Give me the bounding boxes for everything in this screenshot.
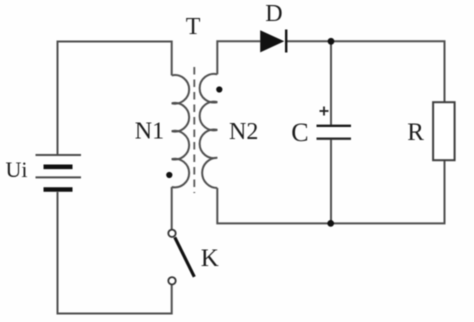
- wire diode cathode to right rail: [287, 41, 445, 102]
- diode D: [260, 30, 286, 53]
- svg-text:N2: N2: [229, 119, 258, 145]
- wire capacitor top lead: [330, 41, 332, 125]
- junction dot top: [328, 38, 335, 45]
- transformer secondary winding N2: [200, 74, 218, 188]
- capacitor C: [317, 107, 352, 139]
- wire top-left rail: [58, 42, 172, 156]
- wire primary lead to switch: [171, 187, 173, 230]
- transformer core: [193, 67, 195, 193]
- resistor R: [433, 102, 455, 160]
- wire capacitor bottom lead: [330, 140, 332, 224]
- svg-text:C: C: [291, 118, 308, 147]
- svg-text:Ui: Ui: [6, 157, 28, 182]
- switch K: [168, 230, 194, 285]
- transformer T primary winding N1: [172, 75, 189, 187]
- wire secondary top lead: [217, 41, 260, 74]
- svg-text:R: R: [407, 119, 424, 146]
- svg-text:T: T: [186, 14, 201, 40]
- wire secondary bottom rail: [217, 160, 444, 223]
- svg-text:K: K: [201, 245, 219, 272]
- battery Ui: [36, 155, 82, 190]
- polarity dot N1: [166, 172, 172, 178]
- svg-text:N1: N1: [135, 119, 164, 145]
- polarity dot N2: [216, 86, 222, 92]
- junction dot bottom: [327, 220, 334, 227]
- svg-text:D: D: [265, 1, 282, 27]
- wire bottom-left loop: [58, 192, 172, 314]
